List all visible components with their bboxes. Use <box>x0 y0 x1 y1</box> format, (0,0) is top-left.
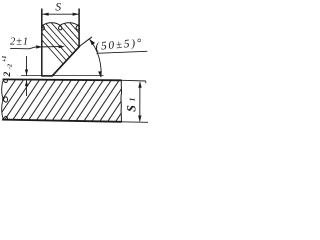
upper plate right edge <box>78 9 80 47</box>
root gap extension line right (angle base line) <box>52 75 103 77</box>
gap dimension line lower part with arrowhead <box>26 80 28 96</box>
angle value underline shelf <box>97 51 148 53</box>
arc arrowhead at bevel line <box>90 39 96 45</box>
svg-text:S: S <box>55 1 61 13</box>
lower plate bottom edge extension <box>122 121 148 124</box>
arc arrowhead at base line <box>98 71 102 77</box>
lower plate top edge <box>3 78 122 81</box>
svg-text:2±1: 2±1 <box>10 36 29 47</box>
svg-text:2: 2 <box>3 72 13 78</box>
lower plate bottom edge <box>2 120 122 122</box>
upper plate bottom edge (root face) <box>41 75 52 77</box>
section hatching of upper vertical plate <box>24 20 130 76</box>
extension end tick <box>145 81 148 83</box>
rotated gap label 2 +1/-2 <box>2 56 14 78</box>
rotated label S1 <box>124 98 138 112</box>
break line, right end of lower plate section <box>120 80 123 122</box>
wavy break line, left end of lower plate <box>2 77 8 121</box>
dimension S (upper plate thickness) <box>43 13 79 15</box>
svg-text:+1: +1 <box>2 56 8 62</box>
root gap extension line left <box>21 75 42 77</box>
wavy break line, top of upper plate <box>41 23 79 30</box>
angle dimension arc (50±5)° <box>90 39 102 77</box>
svg-text:S: S <box>124 105 138 112</box>
leader arrowhead at plate edge <box>36 45 42 48</box>
section hatching of lower horizontal plate <box>0 79 144 124</box>
svg-text:1: 1 <box>128 98 137 102</box>
lower plate top edge extension <box>122 79 146 82</box>
gap dimension line upper part with arrowhead <box>26 56 28 75</box>
upper plate left edge <box>41 9 43 76</box>
leader line from 2±1 label <box>29 47 61 49</box>
leader arrowhead at bevel root <box>59 45 65 48</box>
svg-text:-2: -2 <box>8 64 14 69</box>
bevel extension line <box>79 37 92 47</box>
bevel edge of upper plate <box>52 46 80 76</box>
dimension S1 (lower plate thickness) <box>139 82 141 121</box>
